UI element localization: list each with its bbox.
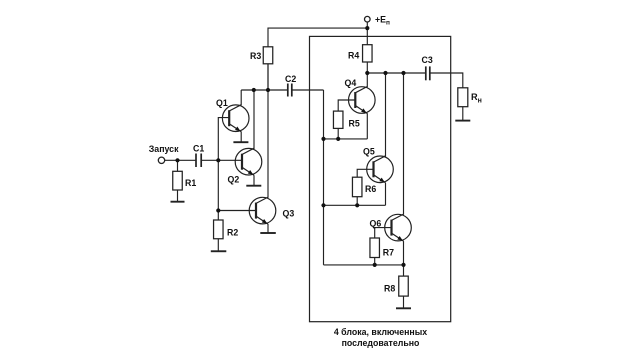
svg-text:+Eп: +Eп — [375, 15, 390, 27]
svg-text:C3: C3 — [422, 55, 433, 65]
svg-text:Q5: Q5 — [363, 147, 375, 157]
svg-text:Запуск: Запуск — [149, 144, 179, 154]
svg-text:Q1: Q1 — [216, 98, 228, 108]
svg-text:R2: R2 — [227, 228, 238, 238]
svg-text:Q2: Q2 — [228, 175, 240, 185]
svg-text:R3: R3 — [250, 51, 261, 61]
svg-text:R7: R7 — [383, 248, 394, 258]
svg-text:R8: R8 — [384, 284, 395, 294]
svg-text:C2: C2 — [285, 74, 296, 84]
svg-text:4 блока, включенных: 4 блока, включенных — [334, 327, 427, 337]
svg-text:Q3: Q3 — [283, 209, 295, 219]
svg-text:R1: R1 — [185, 178, 196, 188]
svg-text:R6: R6 — [365, 184, 376, 194]
svg-text:последовательно: последовательно — [342, 338, 420, 348]
svg-text:R4: R4 — [348, 51, 359, 61]
svg-text:C1: C1 — [193, 144, 204, 154]
svg-text:Rн: Rн — [471, 92, 482, 104]
svg-text:R5: R5 — [349, 119, 360, 129]
svg-text:Q6: Q6 — [370, 218, 382, 228]
svg-text:Q4: Q4 — [345, 78, 357, 88]
